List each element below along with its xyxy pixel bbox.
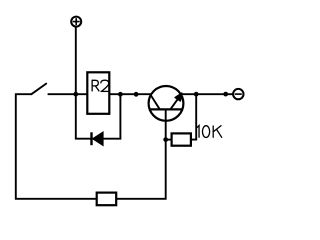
label R2	[92, 80, 110, 92]
terminal + positive supply	[71, 17, 81, 27]
node: base junction	[163, 137, 168, 142]
transistor Q1 emitter lead	[170, 98, 178, 110]
switch S1 blade	[31, 84, 46, 95]
wire: left corner, switch pole stub, left rail down, bottom wire to resistor	[16, 94, 97, 199]
wire: R2 right side to transistor collector	[109, 93, 150, 95]
node: minus terminal node	[223, 92, 228, 97]
node: collector wire node	[134, 92, 139, 97]
resistor R3 10K body	[172, 133, 191, 145]
label 10K	[197, 125, 222, 137]
diode D1 arrow body	[93, 132, 104, 146]
transistor Q1 collector lead	[150, 94, 160, 109]
wire: bottom wire right segment and riser to base node	[116, 140, 165, 199]
wire: switch contact to R2	[48, 93, 88, 95]
wire: transistor emitter to minus terminal	[181, 93, 232, 95]
transistor Q1 base stem	[165, 109, 167, 139]
wire: base node stub to 10K resistor	[166, 139, 172, 141]
transistor Q1 body circle	[149, 86, 184, 121]
transistor Q1 base bar	[150, 108, 183, 110]
diode D1 cathode bar	[90, 132, 92, 145]
wire: diode parallel loop (left down, across, right up)	[76, 94, 121, 139]
wire: + terminal stem down to main rail	[75, 27, 77, 94]
node: junction of + rail with main wire	[73, 92, 78, 97]
transistor Q1 emitter arrowhead	[175, 93, 182, 101]
node: diode loop right junction	[118, 92, 123, 97]
terminal - negative supply	[233, 89, 243, 99]
wire: 10K right side up to emitter rail	[191, 94, 196, 139]
resistor R2 body	[87, 72, 109, 114]
resistor R4 bottom body	[97, 193, 117, 206]
node: 10K top junction	[194, 92, 199, 97]
